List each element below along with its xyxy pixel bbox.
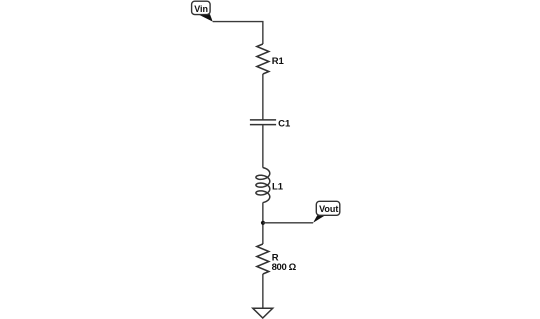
capacitor C1 bottom plate	[250, 124, 276, 126]
capacitor C1 top plate	[250, 119, 276, 121]
svg-text:Vout: Vout	[319, 204, 338, 214]
svg-text:R1: R1	[272, 56, 285, 67]
wire C1 to L1	[262, 125, 264, 168]
node Vout label box	[316, 201, 340, 215]
resistor R1	[257, 44, 269, 74]
wire junction to Vout	[263, 222, 313, 224]
svg-text:C1: C1	[278, 119, 291, 130]
wire R to ground	[262, 274, 264, 308]
svg-text:L1: L1	[272, 182, 284, 193]
node junction dot	[261, 221, 265, 225]
wire L1 to R	[262, 203, 264, 245]
wire Vin to R1	[213, 22, 263, 44]
wire R1 to C1	[262, 74, 264, 120]
node Vin label box	[192, 1, 211, 14]
ground	[253, 308, 273, 318]
svg-text:Vin: Vin	[194, 4, 208, 14]
inductor L1	[256, 168, 270, 203]
resistor R	[257, 244, 269, 274]
node Vout label tail	[313, 215, 325, 223]
svg-text:800 Ω: 800 Ω	[272, 262, 297, 273]
node Vin label tail	[198, 14, 213, 21]
